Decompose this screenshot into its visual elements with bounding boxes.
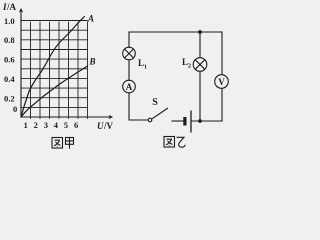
svg-text:2: 2 bbox=[188, 64, 191, 70]
wire: switch to battery bbox=[172, 120, 183, 122]
wire: L2 branch lower bbox=[199, 72, 201, 122]
voltmeter V bbox=[215, 75, 229, 89]
lamp L2 bbox=[193, 58, 207, 72]
svg-text:0.6: 0.6 bbox=[4, 55, 15, 65]
svg-text:1.0: 1.0 bbox=[4, 16, 15, 26]
svg-text:S: S bbox=[152, 97, 158, 108]
svg-text:B: B bbox=[89, 57, 96, 67]
wire: below ammeter bbox=[129, 93, 148, 120]
wire: between lamp L1 and ammeter bbox=[128, 60, 130, 80]
node: junction top bbox=[198, 30, 202, 34]
caption 图乙 (drawn glyphs) bbox=[164, 137, 185, 148]
svg-text:U: U bbox=[97, 121, 104, 131]
label L2 bbox=[182, 57, 191, 70]
svg-text:A: A bbox=[126, 82, 133, 92]
svg-text:0: 0 bbox=[13, 104, 17, 114]
wire: right branch upper (voltmeter) bbox=[221, 32, 223, 75]
svg-text:0.4: 0.4 bbox=[4, 74, 15, 84]
label L1 bbox=[138, 58, 147, 71]
lamp L1 bbox=[123, 47, 136, 60]
graph text labels bbox=[2, 2, 114, 131]
svg-text:/A: /A bbox=[6, 2, 17, 12]
svg-text:A: A bbox=[87, 14, 94, 24]
circuit wires bbox=[129, 32, 222, 121]
svg-text:1: 1 bbox=[144, 65, 147, 71]
svg-text:/V: /V bbox=[103, 121, 114, 131]
caption 图甲 (drawn glyphs) bbox=[52, 138, 74, 149]
svg-text:6: 6 bbox=[74, 120, 78, 130]
curve B bbox=[21, 66, 88, 117]
grid of graph bbox=[21, 21, 88, 119]
svg-text:3: 3 bbox=[44, 120, 48, 130]
svg-text:0.2: 0.2 bbox=[4, 94, 15, 104]
wire: battery to right bbox=[192, 120, 223, 122]
y axis bbox=[20, 9, 22, 117]
switch S bbox=[148, 108, 168, 122]
svg-text:1: 1 bbox=[24, 120, 28, 130]
ammeter A1 bbox=[123, 80, 136, 93]
node: junction bottom bbox=[198, 119, 202, 123]
curve A bbox=[21, 17, 85, 118]
wire: top bbox=[129, 31, 222, 33]
svg-text:V: V bbox=[218, 77, 225, 87]
wire: left branch upper bbox=[128, 32, 130, 47]
svg-text:5: 5 bbox=[64, 120, 68, 130]
svg-text:0.8: 0.8 bbox=[4, 35, 15, 45]
battery bbox=[183, 111, 191, 133]
svg-text:4: 4 bbox=[54, 120, 59, 130]
x axis bbox=[21, 116, 112, 118]
wire: L2 branch upper bbox=[199, 32, 201, 58]
svg-text:2: 2 bbox=[34, 120, 38, 130]
wire: right branch lower bbox=[221, 89, 223, 121]
